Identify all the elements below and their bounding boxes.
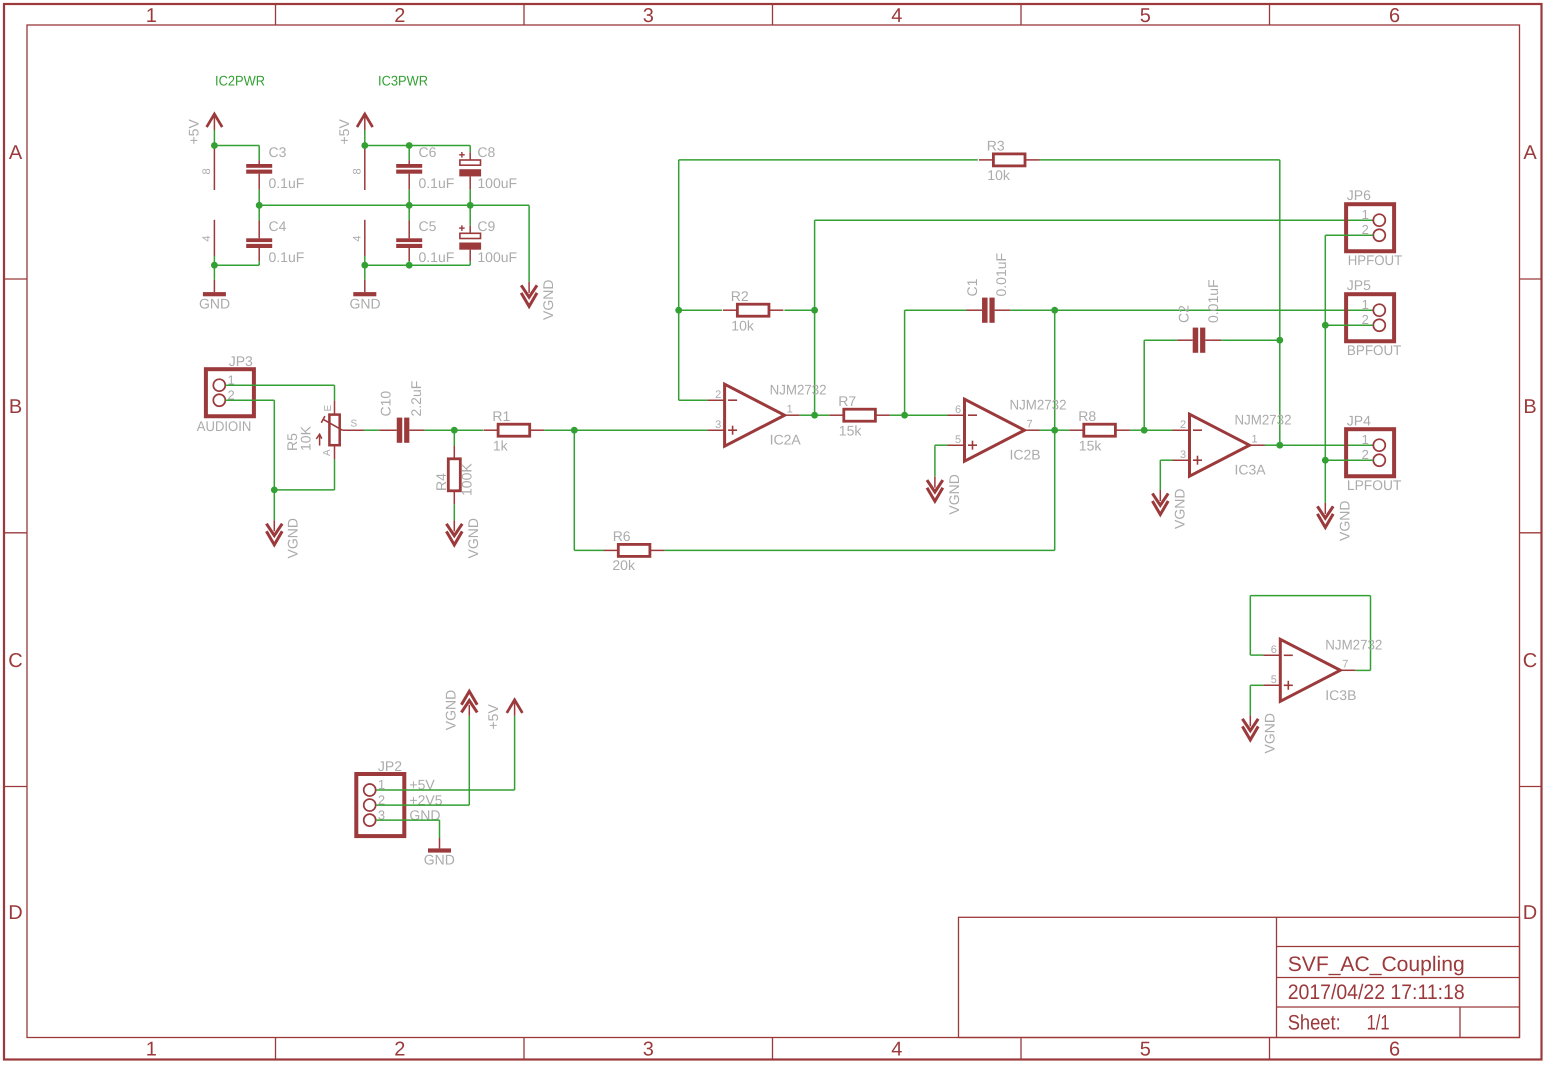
wire	[784, 309, 814, 311]
svg-text:VGND: VGND	[946, 474, 962, 514]
junction	[271, 487, 278, 494]
svg-text:3: 3	[643, 1038, 654, 1060]
wire	[1160, 459, 1172, 461]
wire	[1355, 669, 1370, 671]
svg-text:S: S	[351, 419, 358, 430]
svg-text:R7: R7	[838, 393, 856, 409]
wire	[213, 265, 215, 280]
svg-text:+5V: +5V	[186, 119, 202, 145]
wire	[259, 204, 529, 206]
svg-text:C6: C6	[419, 144, 437, 160]
wire	[1325, 459, 1373, 461]
capacitor C1	[967, 298, 1011, 323]
resistor R8	[1069, 424, 1130, 436]
ground GND (JP2)	[428, 838, 451, 853]
svg-text:1k: 1k	[493, 437, 509, 453]
svg-text:VGND: VGND	[1261, 713, 1277, 753]
IC2PWR pin 8	[213, 146, 215, 191]
wire	[1144, 339, 1177, 341]
connector JP5	[1346, 294, 1394, 341]
svg-text:+5V: +5V	[485, 704, 501, 730]
wire	[214, 145, 259, 147]
wire	[1040, 159, 1280, 161]
wire	[258, 261, 260, 265]
svg-text:A: A	[1523, 142, 1537, 164]
supply VGND (IC3B)	[1242, 715, 1258, 740]
wire	[1250, 654, 1263, 656]
capacitor C5	[396, 221, 422, 262]
svg-text:100K: 100K	[459, 463, 475, 496]
wire	[1279, 160, 1281, 445]
wire	[365, 264, 470, 266]
op-amp IC2B	[948, 399, 1040, 461]
svg-text:3: 3	[715, 419, 721, 431]
resistor R7	[829, 409, 890, 421]
svg-text:5: 5	[1271, 674, 1277, 686]
wire	[1221, 339, 1280, 341]
svg-text:GND: GND	[199, 296, 230, 312]
wire	[1324, 235, 1326, 503]
power +5V (IC3PWR)	[357, 114, 373, 130]
svg-text:6: 6	[1389, 1038, 1400, 1060]
junction	[211, 142, 218, 149]
svg-text:IC2PWR: IC2PWR	[215, 73, 265, 89]
wire	[904, 310, 906, 415]
wire	[468, 716, 470, 805]
svg-text:R1: R1	[492, 408, 510, 424]
svg-text:NJM2732: NJM2732	[1235, 412, 1292, 428]
junction	[361, 142, 368, 149]
svg-text:3: 3	[1180, 449, 1186, 461]
svg-text:0.1uF: 0.1uF	[269, 175, 305, 191]
svg-text:5: 5	[955, 434, 961, 446]
svg-text:0.1uF: 0.1uF	[269, 249, 305, 265]
svg-text:IC3B: IC3B	[1325, 687, 1356, 703]
title block	[959, 917, 1520, 1037]
wire	[408, 205, 410, 220]
svg-text:15k: 15k	[1079, 437, 1103, 453]
svg-text:IC3A: IC3A	[1235, 462, 1267, 478]
power +5V (JP2)	[507, 700, 523, 716]
op-amp IC3B	[1263, 639, 1355, 701]
svg-text:4: 4	[891, 5, 902, 27]
svg-text:C2: C2	[1176, 305, 1192, 323]
svg-text:100uF: 100uF	[477, 249, 517, 265]
wire	[1370, 596, 1372, 671]
wire	[1055, 429, 1070, 431]
svg-text:NJM2732: NJM2732	[1325, 637, 1382, 653]
svg-text:1/1: 1/1	[1367, 1012, 1390, 1035]
junction	[406, 142, 413, 149]
resistor R2	[723, 304, 784, 316]
svg-text:IC2A: IC2A	[770, 432, 802, 448]
wire	[364, 265, 366, 280]
wire	[905, 414, 948, 416]
wire	[514, 716, 516, 790]
svg-text:5: 5	[1140, 1038, 1151, 1060]
junction	[901, 412, 908, 419]
svg-text:GND: GND	[424, 852, 455, 868]
svg-text:HPFOUT: HPFOUT	[1348, 252, 1403, 268]
svg-text:C8: C8	[477, 144, 495, 160]
supply VGND (IC3A)	[1152, 490, 1168, 515]
wire	[664, 549, 1054, 551]
resistor R1	[484, 424, 545, 436]
capacitor C9	[459, 225, 481, 261]
IC3PWR pin 8	[364, 146, 366, 191]
svg-text:VGND: VGND	[1171, 489, 1187, 529]
svg-text:C9: C9	[477, 218, 495, 234]
junction	[1051, 427, 1058, 434]
resistor R3	[979, 154, 1040, 166]
wire	[469, 205, 471, 225]
wire	[213, 130, 215, 146]
junction	[1276, 442, 1283, 449]
wire	[453, 430, 455, 446]
potentiometer R5	[316, 401, 364, 460]
junction	[675, 307, 682, 314]
wire	[469, 261, 471, 265]
wire	[679, 399, 708, 401]
svg-text:10k: 10k	[731, 317, 755, 333]
connector JP6	[1346, 204, 1394, 251]
junction	[1051, 307, 1058, 314]
svg-text:R4: R4	[433, 473, 449, 491]
junction	[1322, 322, 1329, 329]
capacitor C6	[396, 160, 422, 190]
wire	[274, 489, 334, 491]
svg-text:7: 7	[1342, 658, 1348, 670]
svg-text:BPFOUT: BPFOUT	[1347, 342, 1402, 358]
svg-text:R2: R2	[731, 288, 749, 304]
connector JP4	[1346, 429, 1394, 476]
svg-text:6: 6	[955, 404, 961, 416]
svg-text:20k: 20k	[612, 557, 636, 573]
wire	[1144, 429, 1172, 431]
IC3PWR pin 4	[364, 220, 366, 256]
op-amp IC3A	[1173, 414, 1265, 476]
wire	[1250, 595, 1370, 597]
wire	[528, 205, 530, 282]
svg-text:GND: GND	[349, 296, 380, 312]
svg-text:2: 2	[1180, 419, 1186, 431]
wire	[1130, 429, 1144, 431]
wire	[334, 459, 336, 490]
wire	[1159, 460, 1161, 490]
svg-text:1: 1	[1252, 433, 1258, 445]
wire	[1249, 596, 1251, 656]
svg-text:C: C	[8, 650, 22, 672]
wire	[376, 789, 514, 791]
svg-text:E: E	[323, 405, 334, 412]
wire	[364, 256, 366, 265]
wire	[454, 429, 483, 431]
wire	[574, 429, 707, 431]
wire	[225, 399, 274, 401]
svg-text:4: 4	[891, 1038, 902, 1060]
supply VGND (outputs)	[1317, 503, 1333, 528]
svg-text:1: 1	[1362, 207, 1369, 222]
svg-text:2: 2	[394, 5, 405, 27]
svg-text:C10: C10	[378, 391, 394, 417]
wire	[408, 146, 410, 161]
wire	[439, 820, 441, 838]
wire	[273, 400, 275, 490]
wire	[469, 146, 471, 153]
wire	[1325, 324, 1373, 326]
wire	[1250, 684, 1263, 686]
connector JP3	[206, 369, 254, 416]
svg-text:4: 4	[201, 235, 213, 241]
capacitor C8	[459, 152, 481, 190]
supply VGND (JP2)	[461, 691, 477, 716]
wire	[258, 205, 260, 220]
svg-text:VGND: VGND	[540, 280, 556, 320]
wire	[815, 414, 830, 416]
ground GND (IC2PWR)	[203, 280, 226, 297]
svg-text:JP2: JP2	[378, 758, 402, 774]
svg-text:R8: R8	[1078, 408, 1096, 424]
svg-text:2: 2	[715, 389, 721, 401]
svg-text:IC3PWR: IC3PWR	[378, 73, 428, 89]
wire	[679, 159, 978, 161]
wire	[1143, 340, 1145, 430]
wire	[1010, 309, 1054, 311]
svg-text:R3: R3	[987, 138, 1005, 154]
junction	[406, 262, 413, 269]
svg-text:JP5: JP5	[1347, 277, 1371, 293]
wire	[1265, 444, 1280, 446]
svg-text:A: A	[9, 142, 23, 164]
junction	[361, 262, 368, 269]
svg-text:0.01uF: 0.01uF	[1205, 279, 1221, 323]
wire	[1054, 310, 1056, 550]
connector JP2	[356, 774, 404, 836]
svg-text:IC2B: IC2B	[1010, 447, 1041, 463]
wire	[258, 146, 260, 161]
svg-text:7: 7	[1027, 418, 1033, 430]
wire	[935, 444, 948, 446]
svg-text:JP3: JP3	[229, 353, 253, 369]
svg-text:D: D	[8, 902, 22, 924]
ground GND (IC3PWR)	[353, 280, 376, 297]
svg-text:4: 4	[351, 235, 363, 241]
svg-text:6: 6	[1389, 5, 1400, 27]
svg-text:1: 1	[787, 403, 793, 415]
svg-text:LPFOUT: LPFOUT	[1347, 477, 1402, 493]
wire	[408, 190, 410, 206]
supply VGND (JP3)	[266, 520, 282, 545]
svg-text:NJM2732: NJM2732	[770, 382, 827, 398]
svg-text:1: 1	[1362, 432, 1369, 447]
svg-text:0.1uF: 0.1uF	[419, 249, 455, 265]
wire	[469, 190, 471, 206]
wire	[408, 261, 410, 265]
capacitor C10	[379, 418, 424, 443]
junction	[467, 202, 474, 209]
svg-text:AUDIOIN: AUDIOIN	[197, 418, 252, 434]
svg-text:B: B	[1523, 396, 1536, 418]
svg-text:C3: C3	[269, 144, 287, 160]
wire	[365, 145, 470, 147]
wire	[574, 549, 604, 551]
svg-text:1: 1	[146, 5, 157, 27]
wire	[573, 430, 575, 550]
wire	[225, 384, 334, 386]
svg-text:C1: C1	[964, 278, 980, 296]
svg-text:2: 2	[394, 1038, 405, 1060]
junction	[406, 202, 413, 209]
wire	[679, 309, 722, 311]
wire	[800, 414, 815, 416]
svg-text:6: 6	[1271, 644, 1277, 656]
supply VGND (R4)	[446, 520, 462, 545]
capacitor C4	[246, 221, 272, 262]
wire	[453, 504, 455, 520]
svg-text:Sheet:: Sheet:	[1288, 1012, 1341, 1035]
resistor R6	[604, 544, 665, 556]
svg-text:A: A	[322, 449, 333, 456]
svg-text:0.1uF: 0.1uF	[419, 175, 455, 191]
svg-text:NJM2732: NJM2732	[1010, 397, 1067, 413]
svg-text:3: 3	[643, 5, 654, 27]
IC2PWR pin 4	[213, 220, 215, 256]
svg-text:0.01uF: 0.01uF	[993, 253, 1009, 297]
svg-text:VGND: VGND	[443, 690, 459, 730]
svg-text:B: B	[9, 396, 22, 418]
svg-text:1: 1	[146, 1038, 157, 1060]
junction	[1141, 427, 1148, 434]
svg-text:1: 1	[1362, 297, 1369, 312]
wire	[678, 160, 680, 400]
wire	[364, 130, 366, 146]
svg-text:JP4: JP4	[1347, 412, 1371, 428]
wire	[815, 219, 1374, 221]
svg-text:5: 5	[1140, 5, 1151, 27]
wire	[1325, 234, 1373, 236]
wire	[905, 309, 967, 311]
svg-text:VGND: VGND	[1336, 501, 1352, 541]
svg-text:C4: C4	[269, 218, 287, 234]
svg-text:8: 8	[201, 168, 213, 174]
junction	[1276, 337, 1283, 344]
capacitor C2	[1177, 328, 1221, 353]
svg-text:100uF: 100uF	[477, 175, 517, 191]
svg-text:D: D	[1523, 902, 1537, 924]
junction	[211, 262, 218, 269]
capacitor C3	[246, 160, 272, 190]
svg-text:10K: 10K	[298, 425, 314, 451]
wire	[273, 490, 275, 520]
supply VGND (IC2B)	[927, 477, 943, 502]
op-amp IC2A	[708, 384, 800, 446]
wire	[1280, 444, 1373, 446]
wire	[544, 429, 574, 431]
resistor R4	[448, 446, 460, 505]
junction	[811, 412, 818, 419]
wire	[213, 256, 215, 265]
svg-text:R6: R6	[613, 528, 631, 544]
wire	[814, 220, 816, 415]
svg-text:10k: 10k	[987, 167, 1011, 183]
svg-text:VGND: VGND	[465, 518, 481, 558]
wire	[934, 445, 936, 477]
wire	[364, 429, 379, 431]
wire	[425, 429, 455, 431]
svg-text:VGND: VGND	[284, 518, 300, 558]
wire	[1040, 429, 1055, 431]
wire	[1249, 685, 1251, 715]
wire	[1055, 309, 1374, 311]
svg-text:+5V: +5V	[336, 119, 352, 145]
wire	[376, 819, 439, 821]
junction	[256, 202, 263, 209]
svg-text:15k: 15k	[839, 422, 863, 438]
power +5V (IC2PWR)	[207, 114, 223, 130]
svg-text:C5: C5	[419, 218, 437, 234]
svg-text:2.2uF: 2.2uF	[408, 381, 424, 417]
supply VGND (power)	[521, 282, 537, 307]
wire	[334, 385, 336, 400]
svg-text:8: 8	[351, 168, 363, 174]
svg-text:JP6: JP6	[1347, 187, 1371, 203]
svg-text:2017/04/22 17:11:18: 2017/04/22 17:11:18	[1288, 981, 1465, 1004]
junction	[571, 427, 578, 434]
wire	[890, 414, 905, 416]
junction	[1322, 457, 1329, 464]
svg-text:SVF_AC_Coupling: SVF_AC_Coupling	[1288, 953, 1465, 976]
wire	[376, 804, 469, 806]
wire	[258, 190, 260, 206]
junction	[811, 307, 818, 314]
junction	[451, 427, 458, 434]
wire	[214, 264, 259, 266]
svg-text:C: C	[1523, 650, 1537, 672]
